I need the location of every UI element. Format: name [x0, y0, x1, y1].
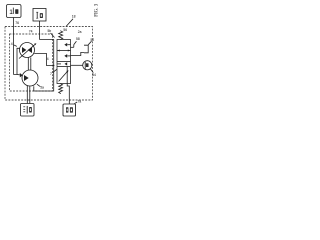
- wire: box B stem: [39, 21, 41, 40]
- valve divider 3: [57, 66, 71, 68]
- gauge chord: [84, 62, 86, 69]
- leader to outer boundary: [66, 19, 73, 27]
- svg-text:1: 1: [9, 9, 13, 16]
- leader for 4: [14, 45, 17, 47]
- leader plug: [88, 41, 91, 45]
- valve body: [57, 40, 71, 84]
- junction dot: [53, 65, 54, 66]
- shaft pump-motor (double line): [27, 58, 29, 71]
- svg-text:18: 18: [72, 15, 76, 19]
- spring top: [59, 31, 63, 40]
- valve proportional arrow: [59, 72, 68, 82]
- motor M: [22, 70, 38, 86]
- box D label: [66, 107, 68, 112]
- gauge circle: [83, 61, 92, 70]
- leader gauge: [90, 69, 93, 73]
- wire: pump left to motor: [14, 48, 20, 74]
- svg-text:58: 58: [76, 37, 80, 41]
- motor triangle: [24, 75, 29, 81]
- row3 check triangle: [65, 62, 68, 65]
- svg-text:76: 76: [15, 21, 19, 25]
- pilot wire to plug: [71, 52, 85, 55]
- wire: box A stem: [13, 18, 15, 75]
- pump P (variable displacement): [20, 43, 35, 58]
- svg-text:5b: 5b: [48, 29, 52, 33]
- wire from box B around valve: [34, 40, 54, 92]
- controller box B: [33, 9, 46, 22]
- stub top right: [71, 46, 74, 48]
- pump triangle right: [28, 47, 32, 53]
- check valve row2: [64, 54, 67, 58]
- box C label (rotated): [23, 106, 25, 108]
- gauge triangle: [86, 63, 89, 67]
- check valve row1: [64, 43, 67, 47]
- svg-text:2a: 2a: [78, 30, 82, 34]
- shaft motor to box C (double line): [26, 86, 28, 104]
- svg-text:74: 74: [29, 30, 33, 34]
- svg-text:7a: 7a: [78, 100, 82, 104]
- outer dashed boundary: [5, 27, 93, 101]
- svg-text:5a: 5a: [40, 85, 44, 89]
- svg-text:4: 4: [11, 42, 13, 46]
- valve divider 1 with shift arrows: [57, 50, 71, 52]
- inner dashed boundary: [10, 34, 53, 91]
- valve divider 2: [57, 61, 71, 63]
- box B label: [36, 12, 38, 18]
- engine box C: [21, 104, 35, 117]
- svg-text:56: 56: [63, 28, 67, 32]
- valve internal line: [66, 67, 68, 84]
- gauge wire: [71, 64, 83, 66]
- row3 port line: [57, 63, 61, 65]
- motor inlet arrow: [20, 73, 23, 77]
- wire valve to box D: [67, 84, 69, 105]
- plug bracket: [84, 45, 88, 53]
- svg-text:FIG. 3: FIG. 3: [95, 3, 100, 17]
- pump variable arrow: [19, 44, 35, 58]
- wire W2 pump right port: [34, 54, 54, 66]
- svg-text:7: 7: [50, 72, 52, 76]
- svg-text:4: 4: [47, 57, 49, 61]
- controller box A: [7, 5, 22, 18]
- svg-text:52: 52: [91, 38, 95, 42]
- svg-text:54: 54: [92, 73, 96, 77]
- box D: [63, 104, 76, 116]
- spring bottom: [59, 84, 63, 94]
- pump triangle left: [22, 47, 26, 53]
